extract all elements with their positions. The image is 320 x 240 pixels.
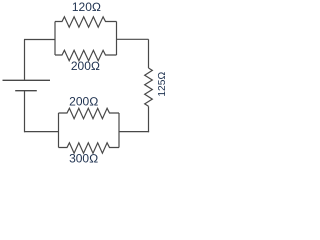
svg-text:300Ω: 300Ω — [69, 152, 98, 166]
svg-text:120Ω: 120Ω — [72, 0, 101, 14]
svg-text:125Ω: 125Ω — [157, 72, 168, 97]
svg-text:200Ω: 200Ω — [71, 59, 100, 73]
svg-text:200Ω: 200Ω — [69, 94, 98, 108]
